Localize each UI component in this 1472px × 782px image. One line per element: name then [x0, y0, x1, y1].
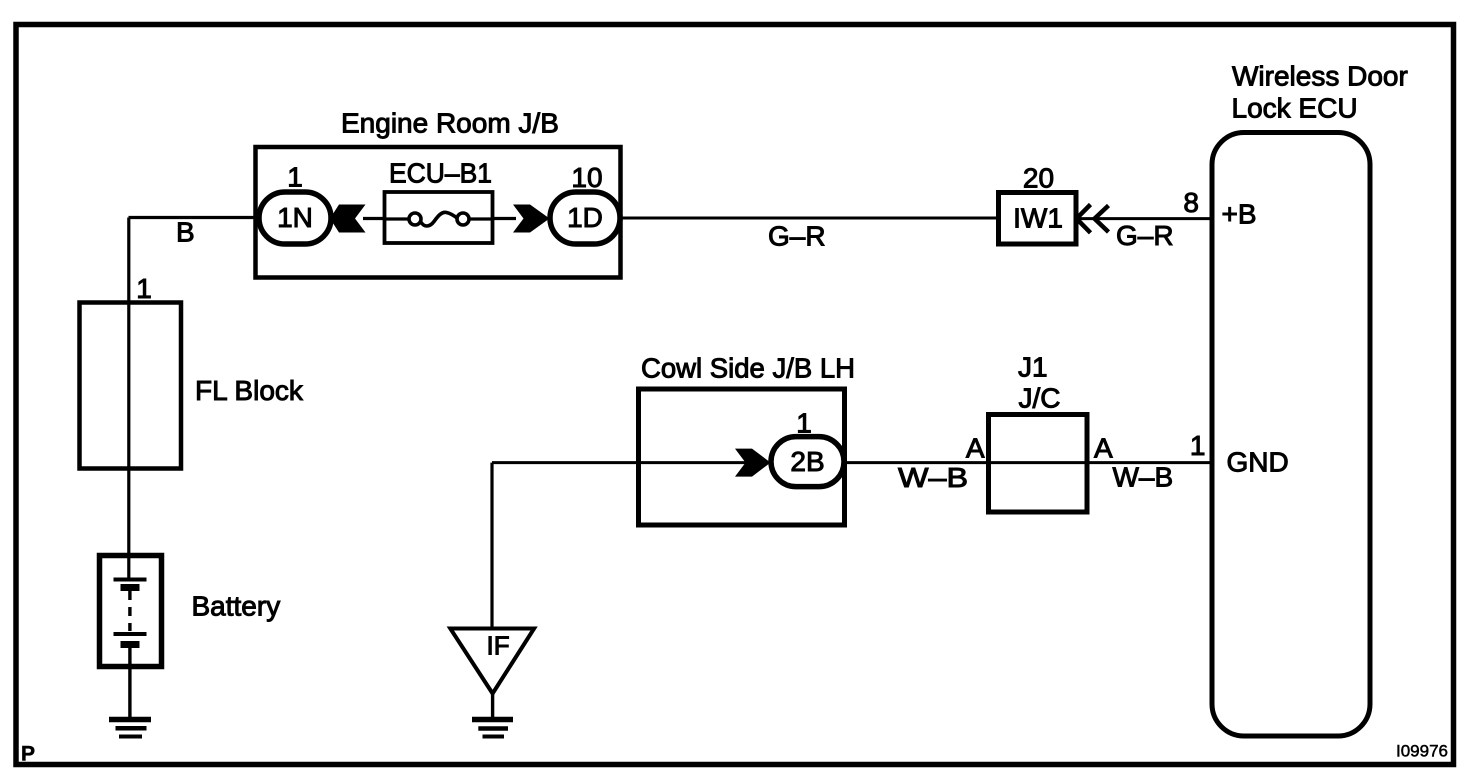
- pin 1 of connector 1N: [287, 162, 303, 193]
- svg-text:IW1: IW1: [1013, 203, 1063, 234]
- pin 1 of connector 2B: [796, 408, 812, 439]
- Engine Room J/B box: [256, 147, 621, 278]
- svg-text:1: 1: [136, 273, 152, 304]
- connector 1N: [259, 192, 331, 244]
- svg-text:W–B: W–B: [898, 462, 968, 493]
- ground connector IF triangle: [450, 629, 534, 694]
- wire IF to ground: [491, 694, 494, 720]
- svg-text:Battery: Battery: [192, 591, 281, 622]
- svg-text:B: B: [176, 217, 195, 248]
- battery cells: [114, 580, 147, 645]
- label W-B left: [898, 462, 968, 493]
- svg-text:I09976: I09976: [1396, 742, 1448, 761]
- label GND: [1227, 447, 1289, 478]
- label FL Block: [195, 375, 304, 406]
- wire G-R: [620, 217, 998, 220]
- label Cowl Side J/B LH: [641, 353, 855, 384]
- ground IF: [472, 720, 513, 737]
- svg-text:W–B: W–B: [1113, 462, 1174, 493]
- connector 2B: [771, 437, 844, 487]
- pin 1 of GND: [1190, 430, 1206, 461]
- label P: [21, 743, 35, 766]
- svg-text:A: A: [1094, 433, 1113, 464]
- svg-text:G–R: G–R: [1116, 220, 1174, 251]
- wire W-B main: [492, 461, 1212, 464]
- connector 1D: [550, 192, 620, 244]
- svg-text:J1: J1: [1018, 352, 1048, 383]
- svg-text:1D: 1D: [567, 202, 603, 233]
- svg-text:Cowl Side J/B LH: Cowl Side J/B LH: [641, 353, 855, 384]
- svg-text:GND: GND: [1227, 447, 1289, 478]
- connector IW1: [999, 193, 1077, 245]
- svg-text:1N: 1N: [277, 202, 313, 233]
- wire B horizontal: [129, 216, 261, 219]
- wire battery to ground: [128, 647, 131, 719]
- wire arrow to fuse: [363, 217, 385, 220]
- Cowl Side J/B box: [639, 389, 845, 525]
- svg-text:ECU–B1: ECU–B1: [389, 158, 492, 189]
- label +B: [1222, 199, 1257, 230]
- fuse ECU-B1 box: [385, 192, 493, 243]
- svg-text:10: 10: [571, 162, 602, 193]
- svg-text:Lock ECU: Lock ECU: [1232, 93, 1358, 124]
- svg-text:1: 1: [287, 162, 303, 193]
- label Wireless Door Lock ECU: [1232, 61, 1408, 124]
- wire fuse to arrow: [493, 217, 516, 220]
- arrow into 1N: [330, 205, 366, 233]
- svg-text:+B: +B: [1222, 199, 1257, 230]
- double chevron arrows: [1077, 205, 1109, 233]
- svg-text:J/C: J/C: [1019, 383, 1061, 414]
- svg-text:2B: 2B: [790, 446, 824, 477]
- arrow into 2B: [735, 449, 771, 477]
- label A left: [966, 433, 985, 464]
- svg-text:8: 8: [1183, 187, 1199, 218]
- label Battery: [192, 591, 281, 622]
- pin 20 of connector IW1: [1023, 163, 1054, 194]
- arrow into 1D: [513, 205, 550, 233]
- svg-text:Engine Room J/B: Engine Room J/B: [341, 108, 559, 139]
- label B: [176, 217, 195, 248]
- wire B vertical: [127, 218, 130, 579]
- svg-text:Wireless Door: Wireless Door: [1232, 61, 1408, 92]
- ground battery: [109, 720, 151, 737]
- label A right: [1094, 433, 1113, 464]
- svg-text:20: 20: [1023, 163, 1054, 194]
- label G-R right: [1116, 220, 1174, 251]
- svg-text:A: A: [966, 433, 985, 464]
- label I09976: [1396, 742, 1448, 761]
- fuse element: [385, 212, 494, 226]
- Wireless Door Lock ECU box: [1212, 133, 1370, 737]
- wire riser to IF: [490, 463, 493, 629]
- label J1 J/C: [1018, 352, 1061, 414]
- label Engine Room J/B: [341, 108, 559, 139]
- label W-B right: [1113, 462, 1174, 493]
- svg-text:G–R: G–R: [768, 221, 826, 252]
- label ECU-B1: [389, 158, 492, 189]
- junction J/C box: [989, 415, 1088, 513]
- pin 8 label: [1183, 187, 1199, 218]
- wire IW1 to ECU: [1076, 217, 1212, 220]
- svg-text:IF: IF: [487, 631, 510, 661]
- pin 1 of FL block: [136, 273, 152, 304]
- FL Block box: [80, 303, 182, 469]
- svg-text:P: P: [21, 743, 35, 766]
- label G-R left: [768, 221, 826, 252]
- pin 10 of connector 1D: [571, 162, 602, 193]
- svg-text:1: 1: [1190, 430, 1206, 461]
- battery box: [100, 556, 162, 667]
- svg-text:FL Block: FL Block: [195, 375, 304, 406]
